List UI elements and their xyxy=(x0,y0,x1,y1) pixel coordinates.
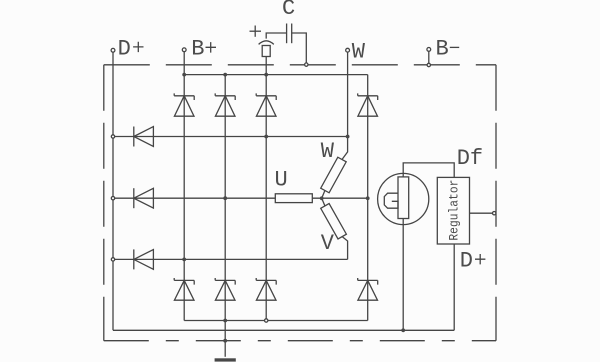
alternator housing dashed frame top xyxy=(104,64,496,66)
junction rotor D+ line xyxy=(401,328,405,332)
junction row1 col3 xyxy=(264,135,268,139)
svg-text:B: B xyxy=(191,36,204,61)
terminal D+ circle xyxy=(111,48,115,52)
terminal post body xyxy=(262,46,270,57)
wire phase column 3 (from + post down) xyxy=(265,57,267,321)
junction row2 col2 xyxy=(223,196,227,200)
junction row1 W drop xyxy=(346,135,350,139)
stator winding V xyxy=(321,204,347,240)
wire regulator bottom pin D+ xyxy=(453,244,455,330)
capacitor C plus sign xyxy=(250,26,262,37)
rotor field winding bar xyxy=(398,177,409,219)
terminal W circle xyxy=(346,48,350,52)
terminal B+ circle xyxy=(182,48,186,52)
wire capacitor left lead xyxy=(266,33,286,39)
node D+ rail row1 xyxy=(111,135,114,138)
wire regulator right pin to housing xyxy=(470,212,493,214)
diode D1 top positive (col 1) xyxy=(174,93,194,116)
svg-text:Df: Df xyxy=(457,146,483,171)
label B- xyxy=(436,36,460,61)
node D+ rail row3 xyxy=(111,258,114,261)
svg-text:B: B xyxy=(436,36,449,61)
diode D8 neutral bottom (col 4) xyxy=(358,278,378,300)
diode D4 neutral top (col 4) xyxy=(358,93,378,116)
node ground bus col3 xyxy=(265,319,268,322)
junction bus col3 xyxy=(264,73,268,77)
svg-text:C: C xyxy=(282,0,295,21)
terminal B- circle xyxy=(427,48,431,52)
diode D10 exciter row 2 xyxy=(134,188,154,208)
label D+ top left xyxy=(118,36,144,61)
stator winding U xyxy=(275,194,312,203)
wire capacitor right lead to housing xyxy=(292,33,307,63)
node B- to housing xyxy=(427,63,430,66)
wire star point to winding W xyxy=(322,191,325,199)
alternator housing dashed frame left xyxy=(103,65,105,341)
wire neutral diode column 4 xyxy=(367,75,369,321)
diode D2 top positive (col 2) xyxy=(215,93,235,116)
diode D9 exciter row 1 xyxy=(134,127,154,147)
svg-text:V: V xyxy=(321,231,335,256)
regulator box xyxy=(437,177,469,244)
wire rotor top to regulator Df xyxy=(403,163,454,178)
wire neutral from star point to column 4 xyxy=(312,197,367,199)
wire bottom ground bus xyxy=(184,320,368,322)
rotor circle xyxy=(378,173,429,224)
svg-text:D: D xyxy=(118,36,131,61)
wire D+ rail vertical xyxy=(112,52,114,330)
wire W terminal drop xyxy=(347,52,349,137)
wire row 1 phase W xyxy=(113,136,348,138)
rotor G hook xyxy=(384,193,398,208)
junction bus col2 xyxy=(223,73,227,77)
diode D3 top positive (col 3) xyxy=(256,93,276,116)
wire phase column 2 xyxy=(224,75,226,321)
node regulator to housing xyxy=(493,212,496,215)
diode D11 exciter row 3 xyxy=(134,249,154,269)
svg-text:W: W xyxy=(352,40,366,65)
capacitor C right plate xyxy=(291,24,293,44)
junction neutral col4 xyxy=(366,196,370,200)
junction bus B+ col1 xyxy=(182,73,186,77)
junction ground housing xyxy=(223,339,227,343)
junction ground bus xyxy=(223,319,227,323)
label D+ regulator xyxy=(460,249,486,274)
diode D7 bottom negative (col 3) xyxy=(256,278,276,300)
wire B- terminal stub xyxy=(428,51,430,63)
wire D+ bottom line to regulator xyxy=(113,329,454,331)
svg-text:D: D xyxy=(460,249,473,274)
wire star point to winding V xyxy=(322,198,325,206)
svg-text:U: U xyxy=(275,168,288,193)
stator winding W xyxy=(321,157,347,193)
node D+ rail row2 xyxy=(111,197,114,200)
junction row3 col1 xyxy=(182,258,186,262)
label B+ xyxy=(191,36,216,61)
ground symbol bar xyxy=(215,358,236,361)
node capacitor to housing xyxy=(305,63,308,66)
terminal post dome xyxy=(259,41,274,45)
svg-text:Regulator: Regulator xyxy=(446,180,461,241)
wire link row3 to winding V xyxy=(342,237,347,260)
diode D5 bottom negative (col 1) xyxy=(174,278,194,300)
alternator housing dashed frame right xyxy=(495,65,497,341)
diode D6 bottom negative (col 2) xyxy=(215,278,235,300)
capacitor C left plate xyxy=(286,24,288,44)
wire row 3 phase V xyxy=(113,258,348,260)
junction star point xyxy=(320,196,324,200)
wire row 2 phase U xyxy=(113,197,275,199)
alternator housing dashed frame bottom xyxy=(104,340,496,342)
wire rotor bottom to D+ line xyxy=(402,219,404,331)
wire ground drop xyxy=(224,321,226,357)
svg-text:W: W xyxy=(321,139,335,164)
wire link row1 to winding W xyxy=(342,137,348,160)
wire B+ bus top xyxy=(184,74,368,76)
wire phase column 1 (from B+ terminal down) xyxy=(183,52,185,321)
